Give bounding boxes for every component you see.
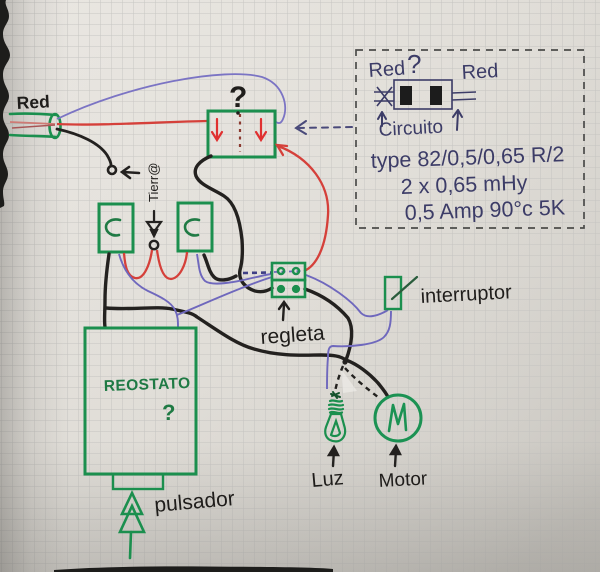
svg-text:regleta: regleta [260, 322, 326, 349]
svg-text:?: ? [162, 400, 175, 425]
svg-text:?: ? [229, 81, 247, 114]
svg-text:Tierr@: Tierr@ [146, 163, 161, 202]
svg-text:Red: Red [368, 57, 406, 82]
svg-text:Luz: Luz [311, 467, 345, 492]
svg-text:Red: Red [461, 60, 499, 84]
svg-text:2 x 0,65 mHy: 2 x 0,65 mHy [400, 171, 528, 199]
svg-text:Motor: Motor [378, 468, 428, 492]
svg-text:?: ? [407, 49, 421, 79]
svg-text:Red: Red [16, 91, 50, 113]
svg-text:REOSTATO: REOSTATO [104, 375, 191, 395]
svg-text:Circuito: Circuito [378, 117, 443, 141]
